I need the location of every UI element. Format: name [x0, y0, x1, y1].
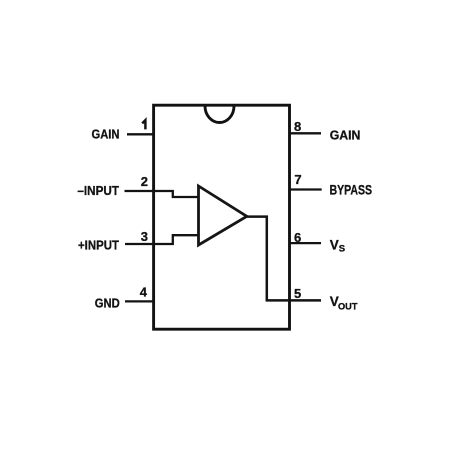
- svg-text:–INPUT: –INPUT: [77, 183, 119, 198]
- svg-text:6: 6: [294, 230, 301, 245]
- wire pin 6 stub: [289, 242, 322, 244]
- svg-text:OUT: OUT: [338, 301, 358, 312]
- pin-1 index notch: [205, 106, 234, 123]
- wire pin2 to op-amp inverting input: [125, 191, 199, 197]
- svg-text:2: 2: [141, 174, 148, 189]
- wire op-amp output to pin5: [245, 217, 321, 301]
- svg-text:GND: GND: [95, 295, 120, 310]
- svg-text:5: 5: [294, 286, 301, 301]
- wire pin3 to op-amp non-inverting input: [125, 235, 199, 244]
- svg-text:3: 3: [141, 229, 148, 244]
- svg-text:8: 8: [294, 119, 301, 134]
- svg-text:BYPASS: BYPASS: [330, 182, 373, 197]
- svg-text:7: 7: [294, 172, 301, 187]
- op-amp A1 (triangle): [199, 186, 247, 245]
- pin number 1: [142, 120, 145, 129]
- wire pin 4 stub: [125, 300, 155, 302]
- wire pin 7 stub: [289, 188, 322, 190]
- svg-text:GAIN: GAIN: [92, 127, 120, 142]
- svg-text:+INPUT: +INPUT: [78, 237, 119, 252]
- svg-text:V: V: [330, 237, 339, 252]
- svg-text:GAIN: GAIN: [330, 127, 361, 142]
- wire pin 1 stub: [127, 133, 155, 135]
- svg-text:4: 4: [140, 285, 148, 300]
- wire pin 8 stub: [289, 132, 322, 134]
- svg-text:S: S: [339, 243, 345, 254]
- IC package body U1 (DIP-8 outline): [154, 105, 290, 329]
